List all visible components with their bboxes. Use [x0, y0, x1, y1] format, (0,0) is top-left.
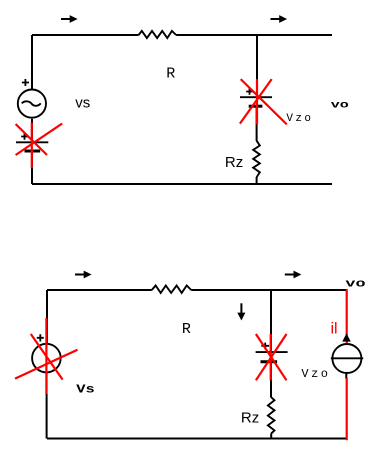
svg-text:R: R: [182, 321, 191, 338]
red vertical stroke over battery Vzo (circuit 2): [270, 334, 272, 380]
crossed-out battery Vzo (long plate), circuit 2: [256, 351, 288, 353]
label R (circuit 2): [182, 321, 191, 338]
svg-text:vs: vs: [75, 95, 90, 112]
svg-text:il: il: [331, 321, 338, 338]
svg-text:vo: vo: [345, 278, 365, 290]
red wire: right vertical upper segment (load branch, circuit 2): [346, 289, 348, 343]
wire: top-right horizontal segment (circuit 1): [176, 34, 332, 36]
red X over battery Vzo (circuit 2): diagonal 2: [256, 334, 287, 380]
label Vs (circuit 2): [76, 383, 95, 397]
wire: bottom horizontal (circuit 1): [32, 183, 332, 185]
wire: middle branch vertical from top wire to battery Vzo (circuit 2): [270, 290, 272, 352]
crossed-out battery Vzo (long plate), circuit 1: [240, 96, 272, 98]
wire: from battery Vzo to resistor Rz (circuit 2): [270, 362, 272, 398]
resistor R (series, circuit 1): [139, 31, 177, 38]
wire: from source bottom to battery (circuit 1): [31, 119, 33, 142]
crossed-out battery (long plate), circuit 1 left: [16, 141, 48, 143]
red X over source Vs: diagonal 2: [15, 350, 78, 379]
wire: from Rz to bottom wire (circuit 1): [256, 177, 258, 184]
current source il (circle with bar, circuit 2): [331, 344, 363, 373]
label Rz (circuit 2): [241, 410, 259, 427]
wire: bottom horizontal (circuit 2): [47, 438, 347, 440]
wire: from Rz to bottom wire (circuit 2): [270, 433, 272, 438]
svg-text:Rz: Rz: [225, 154, 243, 171]
plus sign of source Vs (circuit 2): [37, 334, 44, 341]
red X over left battery (circuit 1): diagonal 1: [16, 124, 47, 155]
wire: below Vs circle to bottom wire (circuit 2): [46, 373, 48, 439]
source Vs circle (crossed out, circuit 2): [32, 344, 61, 373]
label il (red, circuit 2): [331, 321, 338, 338]
plus sign of AC source vs: [22, 79, 29, 86]
svg-text:R: R: [166, 65, 175, 82]
current direction arrow (top-right, circuit 2): [285, 271, 302, 279]
red vertical stroke over source Vs: [45, 318, 47, 394]
svg-text:Vzo: Vzo: [286, 113, 313, 125]
arrowhead of current il (pointing up): [342, 333, 351, 341]
red X over battery Vzo (circuit 2): diagonal 1: [256, 334, 287, 380]
resistor R (series, circuit 2): [152, 286, 191, 293]
svg-text:vo: vo: [331, 99, 349, 111]
resistor Rz (vertical, circuit 1): [253, 141, 260, 177]
red wire: right vertical lower segment (load branch, circuit 2): [346, 378, 348, 440]
label vo (circuit 2): [345, 278, 365, 290]
current direction arrow (top-right, circuit 1): [271, 15, 288, 23]
red vertical stroke over left battery (circuit 1): [31, 123, 33, 169]
AC source vs (circle with sine): [18, 90, 46, 118]
wire: left vertical from top wire to source (circuit 1): [31, 35, 33, 89]
wire: middle branch vertical from top wire to zener battery (circuit 1): [256, 35, 258, 97]
red X over battery Vzo (circuit 1): diagonal 2: [240, 79, 272, 124]
wire: top-left horizontal segment (circuit 2): [47, 289, 152, 291]
crossed-out battery (short plate), circuit 1 left: [25, 150, 41, 153]
current arrow into zener branch (small down arrow, circuit 2): [237, 303, 245, 320]
plus sign of crossed battery Vzo (circuit 2): [261, 343, 269, 349]
wire: from battery to bottom wire (circuit 1): [31, 151, 33, 184]
current direction arrow (top-left, circuit 1): [61, 15, 78, 23]
wire: top-left horizontal segment (circuit 1): [32, 34, 139, 36]
label vo (circuit 1, open-circuit output): [331, 99, 349, 111]
wire: top-right horizontal segment (circuit 2): [191, 289, 347, 291]
wire: from battery Vzo to resistor Rz (circuit 1): [256, 106, 258, 141]
wire: black stub below current source (circuit 2): [345, 373, 347, 379]
label Vzo (circuit 1): [286, 113, 313, 125]
label Vzo (circuit 2): [301, 367, 330, 381]
red vertical stroke over battery Vzo (circuit 1): [256, 79, 258, 124]
red X over left battery (circuit 1): diagonal 2: [16, 124, 63, 156]
svg-text:Vzo: Vzo: [301, 367, 330, 381]
red X over battery Vzo (circuit 1): diagonal 1: [241, 79, 287, 124]
current direction arrow (top-left, circuit 2): [75, 271, 92, 279]
wire: left vertical from top wire to source Vs (circuit 2): [46, 290, 48, 343]
resistor Rz (vertical, circuit 2): [268, 397, 275, 433]
label R (circuit 1): [166, 65, 175, 82]
crossed-out battery Vzo (short plate), circuit 1: [249, 105, 263, 108]
plus sign of crossed battery Vzo (circuit 1): [246, 88, 253, 95]
label vs: [75, 95, 90, 112]
svg-text:Vs: Vs: [76, 383, 95, 397]
crossed-out battery Vzo (short plate), circuit 2: [261, 360, 278, 363]
plus sign of crossed battery (circuit 1 left): [21, 133, 28, 140]
svg-text:Rz: Rz: [241, 410, 259, 427]
label Rz (circuit 1): [225, 154, 243, 171]
red X over source Vs: diagonal 1: [31, 334, 63, 380]
